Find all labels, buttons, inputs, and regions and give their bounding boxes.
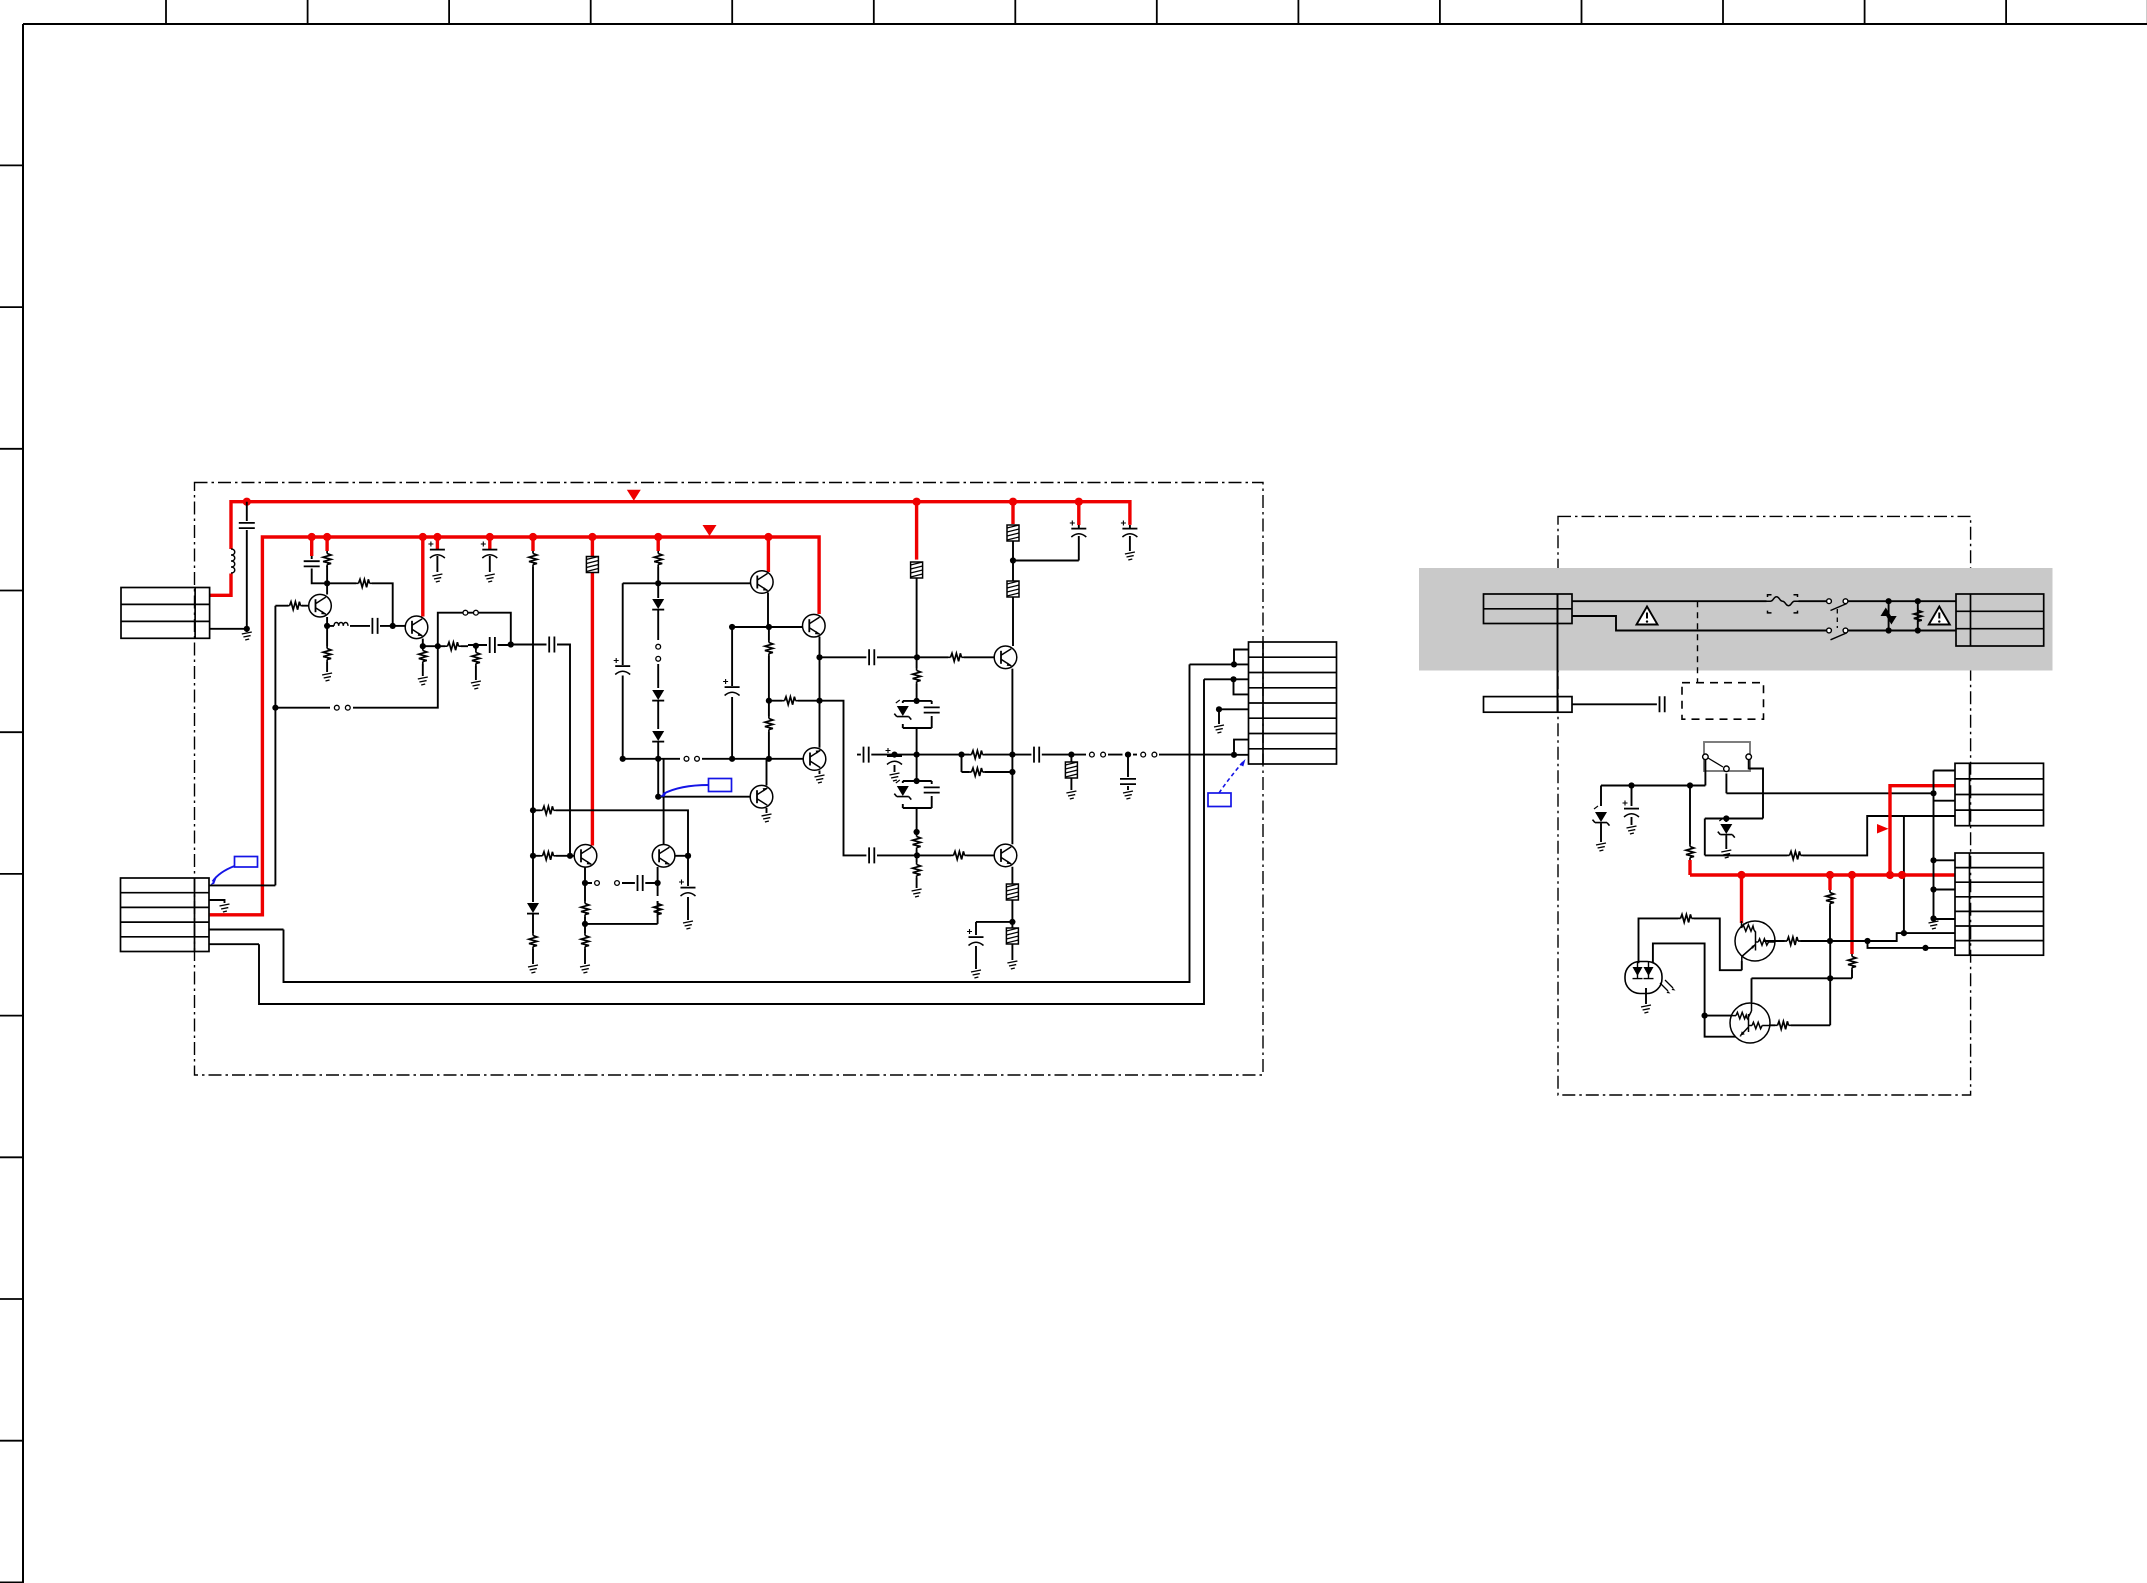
Q-B emitter node	[819, 637, 821, 658]
col 820 to row 701	[819, 657, 821, 700]
Q4 collector tie	[663, 759, 665, 845]
output coupling cap row 657	[820, 656, 918, 658]
bias electrolytic col732	[731, 627, 733, 759]
connector CN-bottom-left (5 rows)	[121, 878, 210, 952]
connector AC-in left (2 rows)	[1484, 594, 1573, 624]
zener Z2 node	[1705, 819, 1763, 856]
Q-D base row 797	[658, 796, 750, 798]
Q-D emitter ground	[766, 808, 768, 813]
zener Z1 to ground	[1600, 786, 1602, 807]
diode D-col533	[527, 903, 539, 914]
row 922 to electrolytic	[976, 922, 1012, 935]
Q5 emitter long drop	[1011, 669, 1013, 845]
col917 R below row856	[916, 855, 918, 888]
relay K1	[1704, 742, 1750, 771]
CN-bottom-left pin2 ground	[209, 900, 225, 903]
red rail marker triangle B	[703, 525, 717, 536]
row 708 link wire	[275, 646, 437, 708]
Q-C emitter ground	[819, 771, 821, 775]
Q6 lower box resistor	[1011, 922, 1013, 960]
red bus B drop through box resistor to Q3	[591, 537, 594, 846]
QA jog to row7	[1868, 941, 1956, 948]
return bus wire 1	[284, 664, 1190, 982]
blue label box 3	[1208, 793, 1231, 807]
row 793 long wire to connector	[1726, 792, 1933, 794]
Q2 emitter resistor	[422, 646, 424, 676]
Q-C base from row 759	[803, 758, 805, 760]
diode chain D2	[652, 690, 664, 701]
diode chain test points	[656, 644, 661, 649]
diode chain left branch	[623, 583, 659, 759]
top ruler tick marks	[165, 0, 167, 24]
transistor Q1	[309, 594, 332, 617]
box resistor col1012 lower	[1007, 581, 1019, 597]
CN-right pins 7-8 bracket	[1234, 740, 1249, 755]
transistor Q2	[405, 616, 428, 639]
fuse F1	[1767, 595, 1799, 613]
red bus B drop to resistor 2	[531, 537, 534, 551]
col917 R between nodes	[916, 657, 918, 701]
zener Z2	[1725, 819, 1727, 823]
ground rail pins	[1934, 771, 1956, 920]
red bus B drop to electrolytic 1	[436, 537, 439, 550]
small connector wire with cap	[1572, 703, 1657, 705]
col 769 resistor upper	[768, 627, 770, 701]
return bus wire 2	[259, 679, 1204, 1004]
red bus A drop to R node	[915, 502, 918, 560]
transistor Q5	[994, 646, 1017, 669]
transistor Q3	[574, 845, 597, 868]
red dots right rail	[1737, 871, 1745, 879]
connector CN-R-upper (4 rows)	[1955, 763, 2044, 825]
col 769 resistor lower	[768, 701, 770, 759]
cap C1 top-left + wire	[246, 502, 248, 629]
right board dash-dot boundary box	[1558, 516, 1971, 1095]
QB output resistor	[1769, 941, 1830, 1025]
optocoupler LED pair	[1625, 962, 1662, 994]
red bus B drop to electrolytic 2	[488, 537, 491, 550]
Q-D collector tie	[766, 759, 768, 786]
red supply rail right	[1690, 873, 1956, 876]
left ruler tick marks	[0, 164, 23, 166]
electrolytic cap EC2 on bus B	[489, 556, 491, 572]
electrolytic cap EC1 on bus B	[436, 556, 438, 572]
red rail marker triangle A	[627, 490, 641, 501]
zener block 2	[903, 755, 932, 832]
red bus B drop to Q-E	[767, 537, 770, 572]
electrolytic col1079	[1078, 536, 1080, 561]
connector AC-in right (3 rows)	[1956, 594, 2044, 646]
transistor Q4	[652, 845, 675, 868]
Q6 emitter chain	[1011, 867, 1013, 922]
dashed link line	[1697, 601, 1699, 683]
row 856 base link resistor	[533, 855, 575, 857]
row772 resistor	[962, 771, 1013, 773]
shunt resistor to ground at node	[475, 646, 477, 680]
AC line wire L	[1572, 600, 1956, 602]
red drop to QA	[1740, 875, 1743, 923]
red junction dots bus B	[308, 533, 316, 541]
red bus A drop to electrolytic	[1077, 502, 1080, 525]
diode chain resistor top	[657, 567, 659, 583]
transistor Q6	[994, 844, 1017, 867]
transistor Q-C	[803, 748, 826, 771]
CN-right wire rows3-4	[1204, 678, 1234, 680]
CN-right pins 1-2 bracket	[1234, 650, 1249, 665]
red bus B drop to resistor	[325, 537, 328, 551]
red drop to RA	[1828, 875, 1831, 890]
warning triangle 1	[1637, 607, 1658, 625]
gray AC mains band	[1419, 568, 2053, 671]
CN-bottom-left pin1 wire	[209, 884, 275, 886]
varistor across mains	[1888, 601, 1890, 630]
row 855 output branch	[820, 701, 918, 856]
connector small below	[1484, 697, 1573, 713]
series C in signal path	[468, 644, 511, 646]
Q1 collector pull-up resistor	[326, 566, 328, 583]
CN-right pin5 ground	[1219, 709, 1249, 724]
row754 series resistor pair node	[917, 755, 962, 772]
Q1 collector branch	[326, 583, 328, 594]
Q-E base wire	[658, 582, 750, 584]
node pin3 to C1 ground	[210, 629, 247, 632]
AC line wire N	[1572, 616, 1956, 631]
resistor R-feed to red bus	[1689, 786, 1691, 845]
row754 inline connectors	[1071, 754, 1234, 756]
col917 R above row856	[916, 832, 918, 855]
Q1 emitter network	[327, 617, 334, 626]
feedback long wire col275	[274, 606, 276, 886]
red bus B drop to diode chain resistor	[657, 537, 660, 551]
diode chain D1	[657, 583, 659, 598]
shunt cap col1128	[1127, 755, 1129, 790]
choke coil on red feed	[231, 549, 235, 573]
feedback loop over RC	[438, 613, 511, 647]
upper conn row4 vertical	[1904, 816, 1955, 933]
Q4 emitter drop	[657, 867, 659, 896]
CN-right wire rows1-2	[1190, 663, 1235, 665]
row754 resistor	[962, 754, 1013, 756]
red junction dots bus A	[243, 498, 251, 506]
switch SW-N	[1827, 628, 1832, 633]
Q5 base resistor	[917, 656, 995, 658]
red diode marker	[1877, 824, 1889, 834]
row 627 link to Q-B	[732, 626, 803, 628]
feedback resistor row 583	[327, 583, 393, 626]
electrolytic on row754	[894, 755, 896, 772]
electrolytic at bus A end	[1129, 525, 1131, 551]
CN-bottom-left pin4 wire	[209, 929, 284, 931]
row 759 bias line	[623, 758, 804, 760]
red bus A drop to box resistor	[1011, 502, 1014, 524]
resistor across mains	[1917, 601, 1919, 630]
CN-bottom-left pin5 wire	[209, 943, 259, 945]
row 810 resistor link	[533, 810, 688, 856]
digital transistor QB	[1730, 1002, 1770, 1043]
warning triangle 2	[1929, 607, 1950, 625]
opto cathode wire to QB	[1653, 943, 1741, 1036]
resistor below diode col533	[532, 914, 534, 964]
red bus B drop to cap C	[310, 537, 313, 556]
connector CN-top-left (3 rows)	[121, 588, 210, 639]
opto ground	[1645, 988, 1647, 1004]
digital transistor QA	[1735, 921, 1775, 961]
rail resistor column x533	[532, 567, 534, 902]
vertical joining connectors	[1557, 594, 1559, 712]
RB resistor bottom	[1830, 970, 1852, 978]
electrolytic EC-R1	[1631, 786, 1633, 807]
series R in signal path	[438, 645, 468, 647]
row 855 resistor wire	[1705, 816, 1904, 855]
zener block 1	[903, 701, 932, 755]
connector CN-right (8 rows)	[1249, 642, 1337, 764]
Q2 emitter node	[423, 639, 438, 647]
opto anode wire with resistor	[1639, 918, 1742, 970]
dashed component box	[1682, 683, 1764, 720]
relay middle contact leg	[1725, 774, 1727, 794]
Q3 emitter row 883	[585, 867, 592, 883]
row 701 resistor	[769, 700, 820, 702]
left board dash-dot boundary box	[195, 483, 1264, 1076]
CN-right pins 3-4 bracket	[1234, 679, 1249, 694]
transistor Q-D	[750, 785, 773, 808]
switch SW-L	[1827, 599, 1832, 604]
bypass cap at Q1 collector	[312, 556, 327, 583]
row 785 supply wire	[1601, 760, 1705, 786]
resistor to ground col585	[584, 924, 586, 964]
signal row 754 left cap	[857, 754, 917, 756]
Q6 base resistor	[917, 854, 995, 856]
Q1 emitter degeneration resistor	[326, 626, 328, 672]
Q-E emitter drop	[767, 593, 769, 628]
transistor Q-E emitter follower	[751, 571, 774, 594]
coupling cap 2 in signal path	[511, 645, 570, 856]
transistor Q-B driver	[803, 614, 826, 637]
box resistor pair col1012 upper	[1007, 525, 1019, 541]
emitter resistors row 902-924	[581, 901, 589, 917]
Q-C collector from node	[819, 701, 821, 748]
red bus B long drop to Q2	[421, 537, 424, 617]
QB collector tie	[1752, 978, 1831, 1002]
red drop to RB	[1850, 875, 1853, 954]
red supply rail bus A	[210, 502, 1130, 596]
relay right leg	[1749, 760, 1763, 819]
electrolytic at Q4 node	[687, 856, 689, 920]
blue label box 2	[709, 779, 732, 792]
blue label box 1	[235, 857, 258, 868]
red supply rail bus B	[210, 537, 820, 915]
connector CN-R-lower (7 rows)	[1955, 853, 2044, 955]
row754 cap to diamonds	[1012, 754, 1071, 756]
row 560 link to electrolytic	[1013, 560, 1079, 562]
red riser with diode to upper connector	[1890, 786, 1956, 875]
shunt box resistor col1071	[1070, 755, 1072, 790]
QA output resistor row	[1763, 933, 1955, 941]
box resistor feed col917	[911, 562, 923, 578]
diode chain D3	[652, 731, 664, 742]
Q1 base feed wire with resistor	[275, 605, 308, 607]
Q4 right node to cap	[675, 855, 688, 857]
